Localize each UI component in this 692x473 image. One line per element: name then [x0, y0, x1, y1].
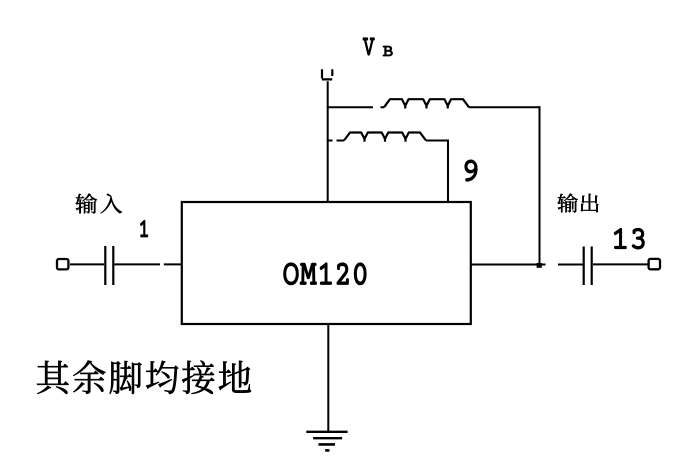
input terminal circle: [57, 259, 68, 269]
pin number 1: [140, 220, 147, 236]
wire right vertical from L1 down to output node: [539, 106, 541, 264]
wire C2 to output terminal: [593, 263, 649, 265]
wire VB node to inductor L1: [327, 106, 384, 108]
capacitor C2 right plate: [591, 247, 593, 286]
label 输入 (input): [75, 193, 122, 213]
label B subscript of VB: [383, 46, 393, 56]
wire VB terminal down to box top (node VB): [327, 81, 329, 202]
label V of VB supply: [363, 38, 375, 55]
inductor L2 (lower coil, 4 turns): [344, 133, 426, 141]
inductor L1 (top coil, 4 turns): [384, 99, 469, 107]
wire box output pin to junction: [470, 264, 583, 266]
note 其余脚均接地 (all other pins grounded): [37, 360, 251, 394]
wire C1 to box pin 1: [115, 263, 183, 265]
wire box bottom to ground: [327, 324, 329, 431]
output terminal circle: [649, 259, 660, 269]
capacitor C2 left plate: [583, 247, 585, 286]
wire input terminal to capacitor C1: [70, 263, 104, 265]
label 输出 (output): [557, 193, 598, 212]
wire pin 9 vertical into box top: [447, 140, 449, 203]
pin number 13: [614, 228, 644, 249]
pin number 9: [465, 160, 477, 181]
power terminal VB (squared open-top circle): [322, 69, 333, 79]
wire VB node stub to inductor L2: [327, 140, 344, 142]
IC label OM120 (U1): [284, 263, 367, 285]
ground symbol: [306, 432, 347, 451]
op-amp U1 OM120 body rectangle: [182, 202, 471, 324]
wire L1 to right vertical: [469, 106, 541, 108]
capacitor C1 left plate: [104, 246, 106, 285]
wire L2 to pin 9 corner: [426, 140, 449, 142]
capacitor C1 right plate: [112, 246, 114, 285]
junction dot at output node: [537, 263, 542, 268]
